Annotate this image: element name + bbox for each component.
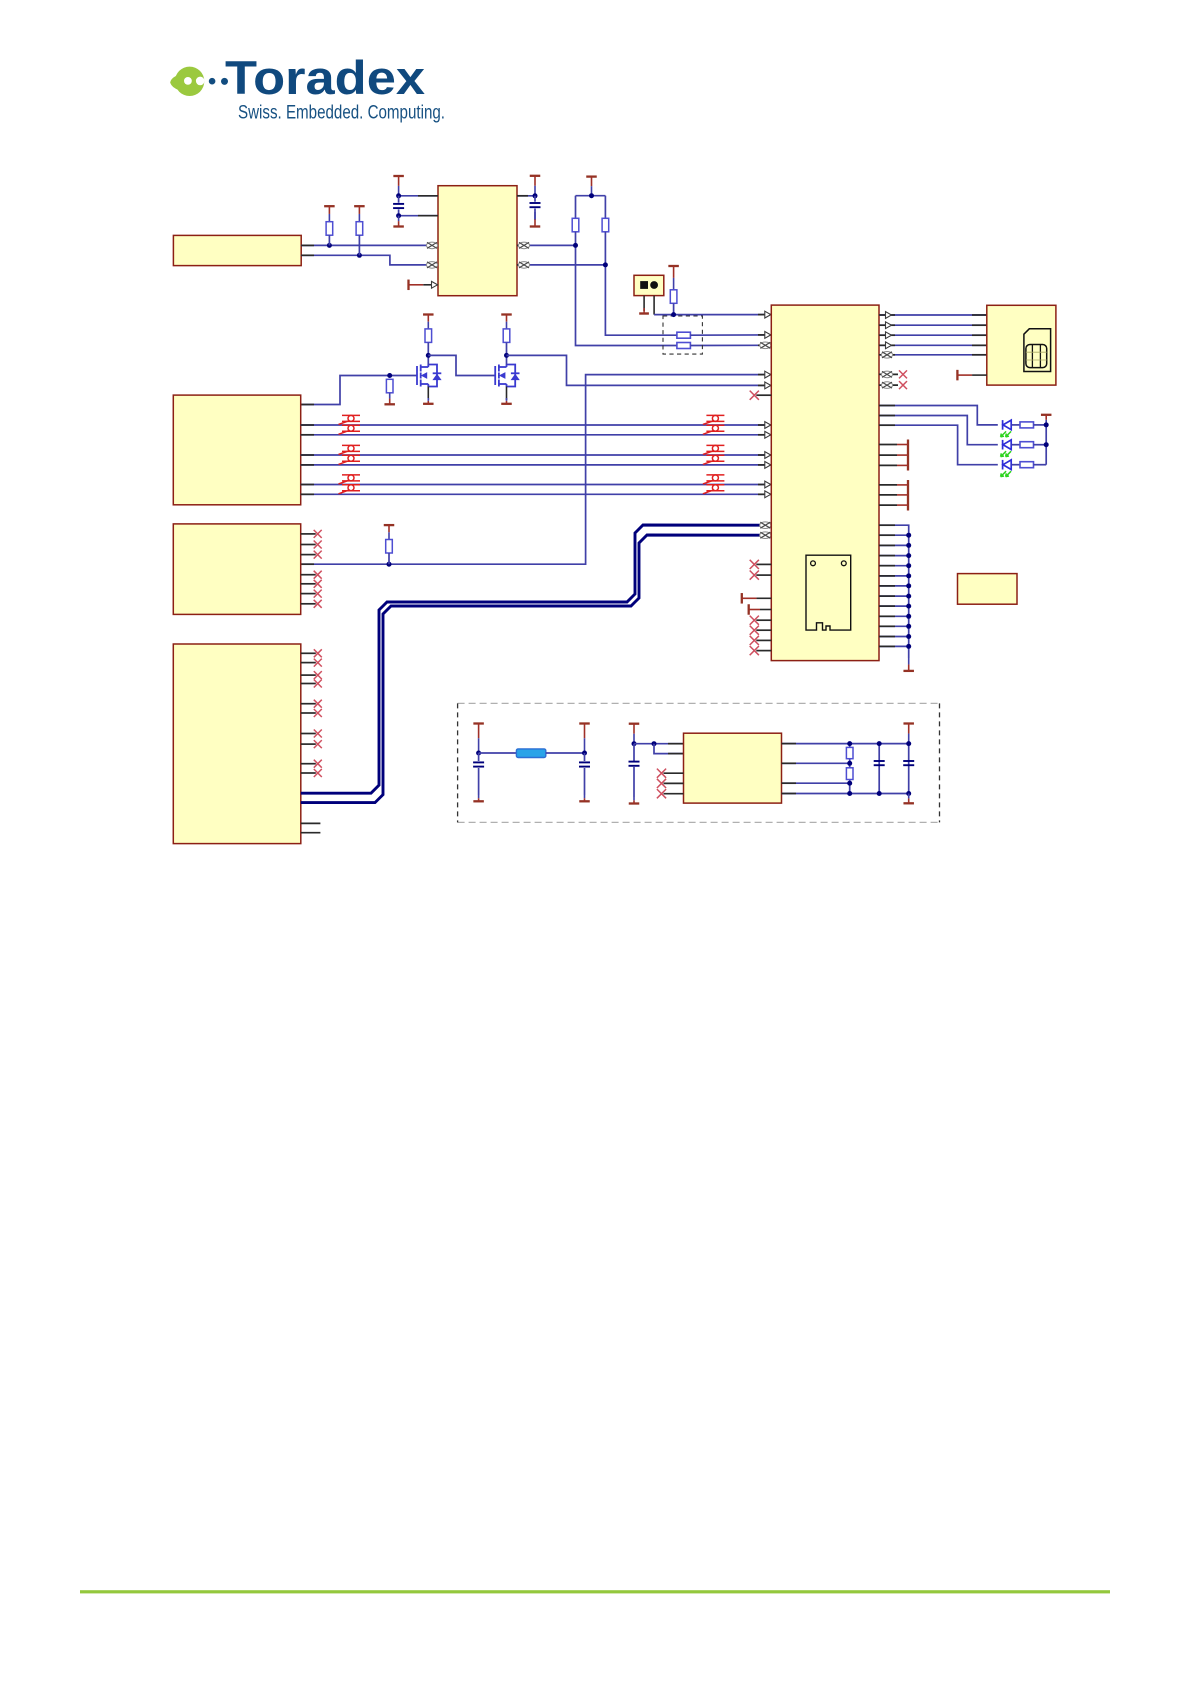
wire filter to L1 bbox=[479, 752, 517, 754]
diff-pair marker right 2 bbox=[703, 425, 725, 434]
power pin U2 row494 bbox=[879, 494, 897, 496]
pin glyph U2 right row355 bbox=[881, 352, 892, 359]
wire U2 to LED1 bbox=[879, 406, 998, 425]
wire R9 to row bbox=[388, 553, 390, 564]
wire U2 to SIM pin1 bbox=[879, 314, 987, 316]
pin stub U2 sim1 bbox=[879, 314, 895, 316]
power rail SIM pin6 bbox=[957, 370, 986, 381]
wire Q1 source to ground bbox=[427, 387, 429, 401]
pin stub U1 right pin2 bbox=[517, 244, 530, 246]
ground bar under U2 bus bbox=[903, 658, 914, 671]
power rail U2 row609 bbox=[749, 604, 772, 615]
inductor L1 bbox=[516, 749, 545, 758]
junction C1 bottom bbox=[396, 213, 401, 218]
pin glyph U2 right row335 bbox=[886, 332, 892, 339]
pin glyph U1 pin5 bbox=[432, 281, 438, 288]
junction LED rail 2 bbox=[1044, 442, 1049, 447]
pin glyph U2 pin IO bbox=[765, 332, 771, 339]
power pin U2 row455 bbox=[879, 454, 897, 456]
junction gnd row636 bbox=[906, 634, 911, 639]
junction gnd row616 bbox=[906, 614, 911, 619]
wire LED1 to R bbox=[1012, 424, 1021, 426]
testpoint round pad bbox=[650, 281, 658, 289]
capacitor C4 bbox=[579, 762, 590, 766]
no-connect stub B3 pin5 bbox=[301, 574, 316, 576]
pin stub B1 pin2 bbox=[301, 254, 314, 256]
pin glyph U1 right pin2 bbox=[518, 242, 529, 249]
pin stub SIM pin4 bbox=[972, 344, 987, 346]
bold wire USB D+ bbox=[301, 525, 772, 793]
no-connect stub U2 row640 bbox=[756, 639, 771, 641]
pin stub U2 diff 3 bbox=[758, 454, 771, 456]
no-connect stub U2 row575 bbox=[756, 574, 771, 576]
wire LED2 to R bbox=[1012, 444, 1021, 446]
ground bar C4 bbox=[579, 795, 590, 801]
no-connect X row374 bbox=[899, 370, 907, 378]
power +V filter out bbox=[579, 724, 590, 754]
pin stub U2 sim5 bbox=[879, 354, 895, 356]
wire right leg lower bbox=[605, 232, 677, 335]
resistor R-LED3 bbox=[1020, 462, 1034, 468]
wire supply down bbox=[633, 744, 635, 761]
junction C1 top bbox=[396, 193, 401, 198]
no-connect stub U2 row620 bbox=[756, 619, 771, 621]
testpoint square pad bbox=[640, 281, 648, 289]
wire divider vertical bbox=[849, 744, 851, 794]
LED supply rail bbox=[1045, 425, 1047, 465]
wire U1 pin2 to C1 node bbox=[399, 215, 438, 217]
logo dot 1 bbox=[209, 78, 216, 85]
wire R8 to Q2 drain bbox=[506, 342, 508, 364]
capacitor C1 bbox=[393, 204, 404, 208]
pin stub B5 right4 bbox=[782, 793, 797, 795]
junction LED rail 1 bbox=[1044, 422, 1049, 427]
transistor Q2 bbox=[495, 365, 519, 387]
pin glyph U2 diff 2 bbox=[765, 431, 771, 438]
pin stub SIM pin1 bbox=[972, 314, 987, 316]
diff-pair marker left 2 bbox=[339, 425, 361, 434]
pin glyph U1 right pin3 bbox=[518, 262, 529, 269]
wire TP round leg bbox=[653, 296, 655, 315]
pin stub B4 pin14 bbox=[301, 832, 321, 834]
no-connect stub U2 row650 bbox=[756, 650, 771, 652]
wire U2 to SIM pin4 bbox=[879, 344, 987, 346]
power +V for R1 bbox=[324, 206, 335, 222]
wire U2 gnd pin row636 bbox=[879, 636, 909, 638]
power +V for R9 bbox=[384, 525, 395, 539]
wire C4 to ground bbox=[584, 768, 586, 795]
junction gnd row575 bbox=[906, 573, 911, 578]
diff-pair marker left 1 bbox=[339, 415, 361, 424]
svg-text:Toradex: Toradex bbox=[225, 51, 425, 104]
no-connect stub B4 pin5 bbox=[301, 703, 316, 705]
wire R-LED3 to rail bbox=[1034, 464, 1047, 466]
power +V for R8 bbox=[501, 315, 512, 329]
pin stub U1 pin1 bbox=[418, 195, 438, 197]
junction C6 top bbox=[877, 741, 882, 746]
wire L1 out bbox=[546, 752, 585, 754]
resistor R-LED1 bbox=[1020, 422, 1034, 428]
wire diff pair line 4 bbox=[301, 464, 772, 466]
pin glyph U2 diff 3 bbox=[765, 452, 771, 459]
wire branch to B5 pin2 bbox=[654, 744, 684, 754]
no-connect stub B5 pin5 bbox=[664, 793, 684, 795]
no-connect stub B3 pin7 bbox=[301, 593, 316, 595]
pin stub SIM pin5 bbox=[972, 354, 987, 356]
pin stub SIM pin2 bbox=[972, 324, 987, 326]
power +V for C2 bbox=[530, 176, 541, 196]
pin stub B5 pin1 bbox=[668, 743, 684, 745]
diff-pair marker left 6 bbox=[339, 485, 361, 494]
wire U2 to SIM pin5 bbox=[879, 354, 987, 356]
pin stub B5 right2 bbox=[782, 762, 797, 764]
wire B5 out row1 bbox=[782, 743, 909, 745]
junction gnd row646 bbox=[906, 644, 911, 649]
wire R3 pair top rail bbox=[576, 195, 606, 197]
pin stub U2 row385 bbox=[758, 384, 771, 386]
wire right leg upper bbox=[604, 196, 606, 219]
regulator U1 bbox=[438, 186, 517, 296]
wire C6 vertical bbox=[878, 744, 880, 794]
wire SIM_VCC row bbox=[654, 314, 771, 316]
pin glyph U1 pin3 bbox=[426, 242, 437, 249]
wire net IN1 B1 to U1 bbox=[301, 244, 438, 246]
no-connect stub B5 pin4 bbox=[664, 782, 684, 784]
wire U1 out A bbox=[517, 244, 576, 246]
junction filter in bbox=[476, 751, 481, 756]
pin glyph U2 pin CLK bbox=[760, 342, 771, 349]
pin stub SIM pin3 bbox=[972, 334, 987, 336]
no-connect stub B3 pin3 bbox=[301, 554, 316, 556]
pin stub U2 row374 bbox=[758, 374, 771, 376]
junction R2 bottom bbox=[357, 253, 362, 258]
power +V filter in bbox=[473, 724, 484, 754]
diff-pair marker right 1 bbox=[703, 415, 725, 424]
wire U2 gnd pin row616 bbox=[879, 615, 909, 617]
Toradex logo green ball with fin bbox=[170, 75, 179, 91]
junction gnd row606 bbox=[906, 604, 911, 609]
wire R4 to row bbox=[673, 303, 675, 314]
ground bar below C1 bbox=[393, 216, 404, 227]
SIM card contact pad bbox=[1026, 345, 1047, 368]
capacitor C5 bbox=[629, 762, 640, 766]
wire Q2 source to ground bbox=[506, 387, 508, 401]
wire net IN2 B1 jog to U1 bbox=[301, 255, 438, 265]
pin stub U1 right pin3 bbox=[517, 264, 530, 266]
no-connect stub B4 pin9 bbox=[301, 763, 316, 765]
note box B6 bbox=[958, 574, 1018, 605]
pin glyph U2 row535 bbox=[760, 532, 771, 539]
no-connect stub B3 pin2 bbox=[301, 544, 316, 546]
pin glyph U1 pin4 bbox=[426, 262, 437, 269]
no-connect stub B5 pin3 bbox=[664, 772, 684, 774]
no-connect stub U2 row395 bbox=[756, 394, 771, 396]
mini-PCIe card drawing inside U2 bbox=[806, 555, 851, 630]
wire B5 out row3 bbox=[782, 782, 850, 784]
pin glyph U2 row385 bbox=[765, 382, 771, 389]
junction C6 bottom bbox=[877, 791, 882, 796]
logo eye right bbox=[196, 77, 205, 86]
no-connect stub B4 pin3 bbox=[301, 674, 316, 676]
junction R3 rail bbox=[589, 193, 594, 198]
pin stub U2 SIM_IO bbox=[758, 334, 771, 336]
testpoint block TP1 bbox=[634, 275, 664, 295]
wire C5 to ground bbox=[633, 767, 635, 797]
wire U2 gnd pin row575 bbox=[879, 575, 909, 577]
junction Q2 drain bbox=[504, 353, 509, 358]
mini-PCIe mounting hole right bbox=[841, 561, 846, 566]
pin stub U2 led1 bbox=[879, 405, 895, 407]
capacitor C7 bbox=[903, 761, 914, 765]
resistor R11 bbox=[846, 768, 853, 780]
no-connect stub U2 right row374 bbox=[879, 373, 898, 375]
pin stub B4 pin13 bbox=[301, 822, 321, 824]
pin stub U2 sim3 bbox=[879, 334, 895, 336]
pin glyph U2 diff 4 bbox=[765, 462, 771, 469]
power +V for C1 bbox=[393, 176, 404, 196]
wire U2 gnd pin row646 bbox=[879, 645, 909, 647]
junction R9 row bbox=[387, 562, 392, 567]
pin stub B2 diff 6 bbox=[301, 493, 314, 495]
junction gnd row545 bbox=[906, 543, 911, 548]
mini-PCIe mounting hole left bbox=[811, 561, 816, 566]
wire supply to B5 bbox=[634, 743, 684, 745]
ground bar Q2 source bbox=[501, 398, 512, 404]
wire diff pair line 1 bbox=[301, 424, 772, 426]
pin stub B3 pin4 bbox=[301, 563, 314, 565]
modem module U2 bbox=[771, 305, 879, 660]
resistor R4 bbox=[670, 290, 677, 304]
no-connect X row385 bbox=[899, 381, 907, 389]
pin stub U2 SIM_VCC bbox=[758, 314, 771, 316]
wire B5 out row4 bbox=[782, 793, 909, 795]
pin stub B2 diff 1 bbox=[301, 424, 314, 426]
junction left leg bbox=[573, 243, 578, 248]
wire U2 ground bus vertical bbox=[879, 525, 909, 658]
pin glyph U2 right row325 bbox=[886, 322, 892, 329]
diff-pair marker right 4 bbox=[703, 455, 725, 464]
wire R5a to U2 bbox=[690, 344, 771, 346]
power +V for R2 bbox=[354, 206, 365, 222]
power pin U2 row465 bbox=[879, 464, 897, 466]
power +V for R3 pair bbox=[586, 177, 597, 196]
wire C3 to ground bbox=[478, 768, 480, 795]
resistor R1 bbox=[326, 222, 333, 236]
dashed box around series resistors bbox=[663, 316, 702, 354]
transistor Q1 bbox=[417, 365, 441, 387]
pin glyph U2 pin VCC bbox=[765, 311, 771, 318]
junction gnd row596 bbox=[906, 594, 911, 599]
ground bar under R6 bbox=[384, 393, 395, 405]
diff-pair marker left 4 bbox=[339, 455, 361, 464]
junction gnd row555 bbox=[906, 553, 911, 558]
pin glyph U2 right row315 bbox=[886, 312, 892, 319]
no-connect stub B3 pin6 bbox=[301, 583, 316, 585]
connector B2 (USIM header) bbox=[173, 395, 300, 505]
wire U2 gnd pin row606 bbox=[879, 605, 909, 607]
wire diff pair line 2 bbox=[301, 434, 772, 436]
pin stub B2 diff 2 bbox=[301, 434, 314, 436]
wire R7 to Q1 drain bbox=[427, 342, 429, 364]
wire R-LED1 to rail bbox=[1034, 424, 1047, 426]
junction R4 row bbox=[671, 312, 676, 317]
LED D3 bbox=[1003, 460, 1012, 470]
wire TP square leg bbox=[643, 296, 645, 311]
junction V1 top bbox=[847, 741, 852, 746]
wire R1 to junction bbox=[328, 235, 330, 245]
wire U2 to LED3 bbox=[879, 425, 998, 465]
pin stub B1 pin1 bbox=[301, 244, 314, 246]
logo dot 2 bbox=[221, 78, 228, 85]
connector J1 bbox=[173, 235, 301, 265]
no-connect stub B4 pin2 bbox=[301, 662, 316, 664]
no-connect stub B4 pin7 bbox=[301, 733, 316, 735]
wire B5 out row2 bbox=[782, 762, 850, 764]
pin glyph U2 row525 bbox=[760, 522, 771, 529]
ground bar Q1 source bbox=[423, 398, 434, 404]
pin stub U2 diff 4 bbox=[758, 464, 771, 466]
power pin U2 row484 bbox=[879, 484, 897, 486]
wire C7 vertical bbox=[908, 744, 910, 794]
wire B3 pin4 to U2 row374 bbox=[301, 375, 772, 565]
wire diff pair line 6 bbox=[301, 493, 772, 495]
pin glyph U2 right row345 bbox=[886, 342, 892, 349]
pin stub U1 right pin1 bbox=[517, 195, 528, 197]
wire left leg upper bbox=[575, 196, 577, 219]
junction R6 gate bbox=[387, 373, 392, 378]
SIM card connector J2 bbox=[987, 305, 1056, 385]
junction V1 mid bbox=[847, 761, 852, 766]
no-connect stub U2 row630 bbox=[756, 629, 771, 631]
wire left leg lower bbox=[576, 232, 677, 346]
wire LED3 to R bbox=[1012, 464, 1021, 466]
wire U2 gnd pin row545 bbox=[879, 544, 909, 546]
wire filter out down bbox=[584, 753, 586, 761]
wire filter in down bbox=[478, 753, 480, 761]
pin glyph U2 row374 bbox=[765, 371, 771, 378]
junction V1 bottom bbox=[847, 791, 852, 796]
resistor R5b bbox=[677, 332, 691, 338]
logo eye left bbox=[184, 77, 192, 85]
pin stub B5 right1 bbox=[782, 743, 797, 745]
junction B5 branch bbox=[652, 741, 657, 746]
pin glyph U2 diff 1 bbox=[765, 422, 771, 429]
pin stub U2 sim2 bbox=[879, 324, 895, 326]
wire U1 out B bbox=[517, 264, 605, 266]
SIM card icon outline bbox=[1024, 329, 1051, 372]
ground bar below C2 bbox=[530, 212, 541, 227]
bold wire USB D- bbox=[301, 535, 772, 803]
power +V LED rail bbox=[1041, 415, 1052, 425]
resistor R6 gate pulldown bbox=[386, 379, 393, 393]
ground bar C3 bbox=[473, 795, 484, 801]
pin stub U2 SIM_CLK bbox=[758, 344, 771, 346]
wire U2 gnd pin row596 bbox=[879, 595, 909, 597]
wire U2 gnd pin row626 bbox=[879, 625, 909, 627]
junction gnd row535 bbox=[906, 533, 911, 538]
pin stub B5 right3 bbox=[782, 782, 797, 784]
dashed enclosure box bbox=[458, 703, 940, 822]
wire B2 pin1 to Q1 gate bbox=[301, 376, 417, 405]
no-connect stub B4 pin6 bbox=[301, 712, 316, 714]
resistor R2 bbox=[356, 222, 363, 236]
connector B3 bbox=[173, 524, 300, 615]
power +V right rail bbox=[903, 724, 914, 744]
pin stub U2 sim4 bbox=[879, 344, 895, 346]
power +V for R4 bbox=[668, 266, 679, 290]
wire R5b to U2 bbox=[690, 334, 771, 336]
wire U2 to SIM pin3 bbox=[879, 334, 987, 336]
wire diff pair line 3 bbox=[301, 454, 772, 456]
wire U2 gnd pin row555 bbox=[879, 555, 909, 557]
pin stub U2 led3 bbox=[879, 424, 895, 426]
oscillator block B5 bbox=[684, 733, 782, 803]
power bar group 2 bbox=[907, 480, 909, 511]
junction right leg bbox=[603, 262, 608, 267]
no-connect stub B4 pin4 bbox=[301, 683, 316, 685]
pin stub U2 diff 1 bbox=[758, 424, 771, 426]
power +V for R7 bbox=[423, 315, 434, 329]
diff-pair marker right 5 bbox=[703, 475, 725, 484]
resistor R3a bbox=[572, 218, 579, 232]
resistor R9 bbox=[386, 540, 393, 554]
wire R-LED2 to rail bbox=[1034, 444, 1047, 446]
resistor R5a bbox=[677, 343, 691, 349]
no-connect stub B3 pin8 bbox=[301, 603, 316, 605]
junction C7 top bbox=[906, 741, 911, 746]
junction R1 bottom bbox=[327, 243, 332, 248]
resistor R-LED2 bbox=[1020, 442, 1034, 448]
no-connect stub B3 pin1 bbox=[301, 533, 316, 535]
junction gnd row565 bbox=[906, 563, 911, 568]
pin stub U2 diff 5 bbox=[758, 484, 771, 486]
no-connect stub B4 pin8 bbox=[301, 743, 316, 745]
power pin U2 row505 bbox=[879, 504, 897, 506]
pin glyph U2 diff 5 bbox=[765, 481, 771, 488]
connector B4 bbox=[173, 644, 300, 844]
junction gnd row585 bbox=[906, 583, 911, 588]
wire U2 gnd pin row565 bbox=[879, 565, 909, 567]
capacitor C3 bbox=[473, 762, 484, 766]
no-connect stub B4 pin10 bbox=[301, 772, 316, 774]
LED D1 bbox=[1003, 420, 1012, 430]
diff-pair marker right 6 bbox=[703, 485, 725, 494]
junction C2 top bbox=[533, 193, 538, 198]
capacitor C2 bbox=[530, 203, 541, 207]
pin stub U2 diff 2 bbox=[758, 434, 771, 436]
pin stub B2 diff 4 bbox=[301, 464, 314, 466]
wire U1 pin1 to C1 node bbox=[399, 195, 438, 197]
pin stub U1 pin2 bbox=[418, 215, 438, 217]
wire U2 gnd pin row535 bbox=[879, 534, 909, 536]
power rail U2 row598 bbox=[742, 593, 772, 604]
pin stub U2 led2 bbox=[879, 415, 895, 417]
no-connect stub U2 row564 bbox=[756, 563, 771, 565]
no-connect stub B4 pin1 bbox=[301, 652, 316, 654]
pin stub B5 pin2 bbox=[668, 753, 684, 755]
ground bar C5 bbox=[629, 797, 640, 804]
resistor R8 bbox=[503, 329, 510, 343]
junction filter out bbox=[582, 751, 587, 756]
LED D2 bbox=[1003, 440, 1012, 450]
junction gnd row626 bbox=[906, 624, 911, 629]
power bar group 1 bbox=[907, 440, 909, 471]
wire U2 to LED2 bbox=[879, 416, 998, 445]
wire diff pair line 5 bbox=[301, 484, 772, 486]
SIM pad divider lines bbox=[1032, 345, 1040, 368]
wire Q2 drain to U2 bbox=[507, 355, 772, 385]
ground bar right rail bbox=[903, 794, 914, 804]
